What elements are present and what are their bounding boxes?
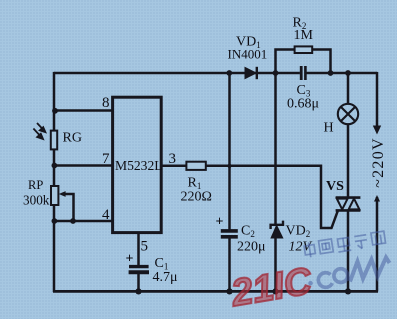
svg-text:M5232L: M5232L xyxy=(115,158,163,173)
svg-text:RG: RG xyxy=(63,131,82,146)
wire pin 4 xyxy=(54,220,113,223)
watermark .com script xyxy=(308,258,389,288)
wire lamp branch xyxy=(347,73,350,197)
lamp H xyxy=(338,104,358,124)
right rail arrow down (mains) xyxy=(373,126,381,135)
wire VD2 branch xyxy=(274,72,277,292)
capacitor C3 xyxy=(301,66,305,80)
resistor R2 xyxy=(295,46,313,53)
capacitor C1 xyxy=(129,267,149,273)
RP wiper arrowhead xyxy=(59,191,66,197)
right rail arrow up (mains) xyxy=(374,195,380,202)
wire C2 supply drop xyxy=(228,72,231,292)
wire R2 loop xyxy=(276,50,331,74)
node triac bottom xyxy=(345,288,351,294)
node C2 bottom xyxy=(226,288,232,294)
wire right rail upper xyxy=(376,72,379,126)
node R1 output crossing xyxy=(227,164,231,168)
potentiometer RP xyxy=(51,186,58,205)
node R2 right xyxy=(328,70,334,76)
node C1 bottom xyxy=(135,288,141,294)
svg-text:300k: 300k xyxy=(23,193,50,208)
watermark 21IC xyxy=(229,262,314,313)
node VD1 anode xyxy=(226,70,232,76)
node pin8 tap xyxy=(52,108,58,114)
triac VS xyxy=(336,198,361,211)
wire top rail xyxy=(54,72,377,75)
wire RP wiper xyxy=(62,194,74,221)
svg-text:4: 4 xyxy=(102,207,110,223)
node VD2 bottom xyxy=(272,288,278,294)
svg-text:RP: RP xyxy=(28,178,43,192)
svg-text:1M: 1M xyxy=(294,28,314,43)
svg-text:3: 3 xyxy=(169,151,177,167)
wire right rail lower xyxy=(376,197,379,291)
svg-text:220μ: 220μ xyxy=(237,240,266,255)
wire left rail xyxy=(53,72,56,292)
svg-text:H: H xyxy=(324,121,334,136)
photoresistor RG xyxy=(51,131,57,150)
capacitor C2 xyxy=(221,231,238,237)
watermark chinese text xyxy=(304,231,386,258)
node lamp tap xyxy=(345,70,351,76)
wire pin 8 xyxy=(54,109,113,112)
node R2 left xyxy=(273,70,279,76)
svg-text:7: 7 xyxy=(102,151,110,167)
svg-text:8: 8 xyxy=(102,95,110,111)
svg-text:+: + xyxy=(216,215,224,230)
node pin7 tap xyxy=(52,163,58,169)
svg-text:VS: VS xyxy=(326,179,344,194)
node pin4 tap left xyxy=(52,218,58,224)
svg-text:4.7μ: 4.7μ xyxy=(153,270,178,285)
light arrow 1 xyxy=(37,123,45,132)
wire pin 3 to gate xyxy=(161,166,338,228)
svg-text:VD2: VD2 xyxy=(286,224,311,240)
svg-text:0.68μ: 0.68μ xyxy=(287,97,319,112)
diode VD1 xyxy=(245,67,257,79)
IC U1 M5232L xyxy=(113,97,162,232)
svg-text:C2: C2 xyxy=(241,224,255,240)
svg-text:IN4001: IN4001 xyxy=(228,47,268,62)
zener diode VD2 xyxy=(271,221,283,238)
node wiper junction xyxy=(70,218,76,224)
wire triac cathode down xyxy=(347,211,350,292)
svg-text:+: + xyxy=(126,252,134,267)
svg-text:220Ω: 220Ω xyxy=(181,190,212,205)
light arrow 2 xyxy=(33,129,43,140)
wire pin 7 xyxy=(54,164,113,167)
resistor R1 xyxy=(186,162,205,170)
wire pin 5 xyxy=(137,232,140,292)
svg-text:~220V: ~220V xyxy=(370,137,387,188)
wire bottom rail xyxy=(53,290,378,293)
svg-text:5: 5 xyxy=(141,239,149,255)
